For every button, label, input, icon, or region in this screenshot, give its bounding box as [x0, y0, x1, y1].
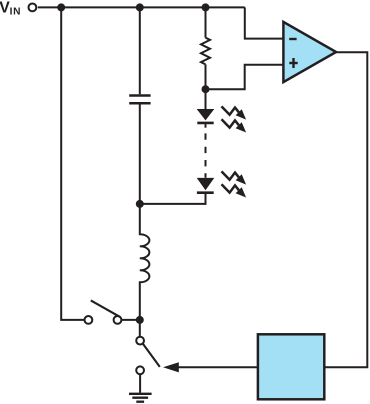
wire top rail — [38, 6, 245, 8]
op-amp minus sign — [289, 38, 296, 40]
wire S1 to J6 — [121, 319, 139, 321]
wire J6 to switch S2 — [139, 320, 141, 337]
wire left branch — [61, 7, 84, 320]
op-amp U1 — [283, 22, 336, 82]
wire top rail to op-amp - input — [245, 7, 284, 38]
switch S1 terminal A — [85, 316, 93, 324]
wire LED D2 to J5 — [140, 194, 206, 204]
switch S2 terminal B — [136, 366, 144, 374]
switch S1 terminal B — [114, 316, 122, 324]
wire control box to switch S2 — [178, 366, 258, 368]
LED D2 — [197, 178, 215, 193]
node J1 — [57, 3, 65, 11]
switch S1 lever — [91, 300, 120, 316]
node J6 — [136, 316, 144, 324]
wire resistor bottom — [205, 64, 207, 89]
svg-text:IN: IN — [10, 7, 22, 18]
op-amp plus sign — [289, 58, 297, 68]
switch S2 lever — [143, 344, 160, 367]
control box U2 — [258, 334, 324, 399]
node J3 — [202, 3, 210, 11]
inductor L1 — [140, 204, 150, 320]
photon arrows D1 — [222, 106, 247, 119]
wire op-amp output to control box — [325, 52, 368, 367]
LED D1 — [197, 109, 215, 128]
capacitor C1 — [129, 96, 150, 104]
wire S2 to ground — [139, 374, 141, 393]
wire J4 to LED D1 — [205, 89, 207, 109]
terminal VIN — [29, 4, 37, 12]
wire J4 to op-amp + input — [206, 65, 284, 90]
wire resistor top — [205, 7, 207, 37]
wire capacitor branch lower — [139, 105, 141, 204]
switch S2 terminal A — [136, 337, 144, 345]
arrow control to S2 — [163, 362, 179, 372]
photon arrows D2 — [222, 171, 247, 184]
node J5 — [136, 200, 144, 208]
node J4 — [202, 85, 210, 93]
wire capacitor branch upper — [139, 7, 141, 94]
ground — [129, 394, 152, 402]
node J2 — [136, 3, 144, 11]
resistor R1 — [201, 38, 210, 65]
wire dashed LED string — [205, 133, 207, 177]
